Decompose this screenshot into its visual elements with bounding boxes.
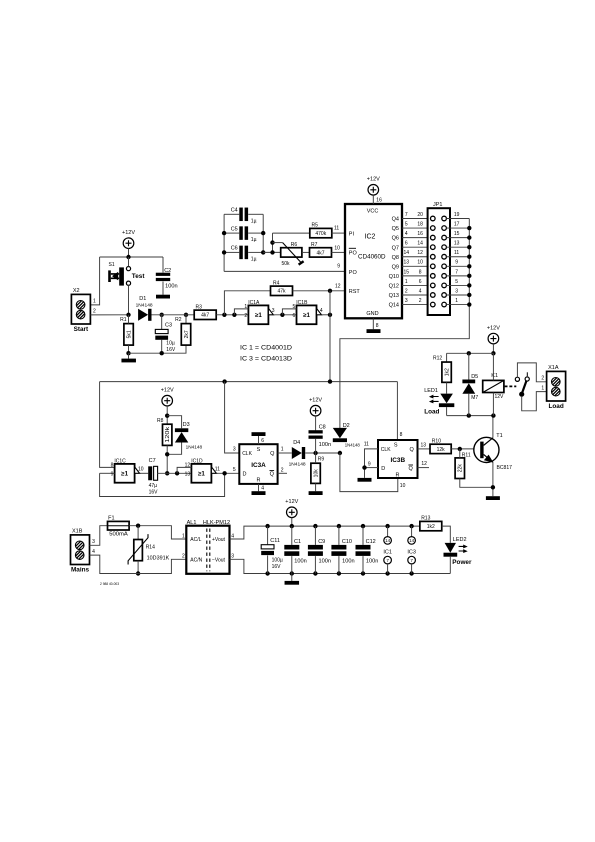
svg-text:VCC: VCC [367, 209, 379, 215]
svg-text:CD4060D: CD4060D [358, 255, 386, 261]
svg-text:+12V: +12V [285, 499, 298, 505]
node bottom rail C11 [265, 571, 269, 575]
svg-text:R: R [396, 472, 400, 478]
pin circle JP1-11 [442, 254, 447, 259]
wire IC1A out to IC1B [273, 314, 296, 316]
ground above IC3A S [252, 432, 266, 436]
svg-text:17: 17 [454, 221, 460, 227]
svg-text:R6: R6 [291, 242, 298, 248]
svg-text:Load: Load [424, 408, 439, 415]
svg-text:GND: GND [366, 311, 378, 317]
wire C11 bottom [267, 555, 269, 573]
node C3 bottom junction [160, 351, 164, 355]
wire +12V to test rail [128, 249, 130, 258]
node test rail junction [126, 255, 130, 259]
wire relay bottom rail [447, 415, 494, 417]
svg-text:+12V: +12V [367, 177, 380, 183]
node JP1 bus junction [467, 274, 471, 278]
wire caps right bus [262, 214, 264, 252]
node D1 anode junction [126, 313, 130, 317]
ground under IC2 [367, 329, 381, 333]
svg-text:Start: Start [74, 326, 89, 333]
svg-text:IC2: IC2 [365, 234, 376, 241]
svg-text:+12V: +12V [122, 230, 135, 236]
wire JP1 pin 7 to bus [446, 275, 469, 277]
wire JP1 pin 1 to bus [446, 304, 469, 306]
capacitor C4 [239, 208, 248, 222]
svg-text:10µ: 10µ [166, 341, 175, 347]
capacitor C8 [309, 430, 323, 439]
capacitor C7 (electrolytic) [148, 466, 157, 480]
svg-text:Power: Power [452, 559, 472, 566]
svg-text:R5: R5 [312, 223, 319, 229]
svg-text:Q13: Q13 [389, 293, 399, 299]
wire C6 right [248, 251, 263, 253]
wire IC2 Q14 to JP1 [402, 304, 430, 306]
mechanical link K1 to contact [505, 385, 517, 387]
wire JP1 pin 11 to bus [446, 256, 469, 258]
svg-text:1: 1 [182, 534, 185, 540]
wire +12V to rail [291, 518, 293, 527]
wire IC3A nQ stub [278, 472, 287, 474]
node R14 bottom [136, 571, 140, 575]
wire JP1 pin 13 to bus [446, 246, 469, 248]
svg-text:3: 3 [455, 288, 458, 294]
ground under R9 [309, 491, 323, 495]
wire C4 right [248, 213, 263, 215]
svg-text:10: 10 [400, 483, 406, 489]
svg-text:16: 16 [376, 197, 382, 203]
svg-text:≥1: ≥1 [303, 312, 310, 319]
transistor T1 (BC817) [474, 433, 512, 471]
svg-text:D: D [381, 466, 385, 472]
wire D5 bottom stub [468, 394, 470, 416]
wire IC2 Q5 to JP1 [402, 227, 430, 229]
svg-text:IC1C: IC1C [114, 458, 126, 464]
svg-text:PO: PO [349, 251, 358, 257]
svg-text:9: 9 [337, 264, 340, 270]
pin circle JP1-6 [431, 283, 436, 288]
resistor R3 [194, 304, 216, 319]
node reset net / IC3A clk branch [222, 379, 226, 383]
switch S1 [108, 262, 145, 286]
resistor R8 [157, 418, 172, 446]
resistor R4 [271, 280, 293, 295]
svg-text:LED2: LED2 [453, 537, 467, 543]
svg-text:6: 6 [405, 241, 408, 247]
wire R2 top [185, 315, 187, 324]
wire R12 top [446, 353, 448, 362]
svg-text:AC/L: AC/L [190, 537, 201, 543]
svg-text:1µ: 1µ [251, 218, 257, 224]
wire D5 top stub [468, 353, 470, 379]
wire R4 branch up [224, 291, 270, 315]
node R4 branch [222, 313, 226, 317]
svg-text:1: 1 [281, 447, 284, 453]
svg-text:X2: X2 [73, 288, 80, 294]
svg-text:2: 2 [419, 298, 422, 304]
svg-text:22k: 22k [458, 464, 464, 473]
svg-text:+Vout: +Vout [212, 537, 226, 543]
svg-text:Q6: Q6 [392, 236, 399, 242]
wire C10 top [338, 526, 340, 545]
diode D5 [462, 380, 475, 394]
+12V supply symbol (power rail) [285, 499, 298, 518]
diode D1 [138, 309, 151, 321]
node IC1B out junction [328, 313, 332, 317]
ground power rail [285, 581, 300, 585]
svg-text:1N4148: 1N4148 [136, 303, 154, 308]
svg-text:1N4148: 1N4148 [186, 444, 203, 449]
node bottom rail IC3 [409, 571, 413, 575]
node R11 branch [458, 447, 462, 451]
pin circle JP1-7 [442, 274, 447, 279]
svg-text:C1: C1 [294, 539, 301, 545]
wire R9 bottom [315, 483, 317, 491]
svg-text:C6: C6 [231, 246, 238, 252]
wire LED2 to rail [449, 557, 451, 574]
node IC3B D/CLK [362, 465, 366, 469]
wire JP1 pin 15 to bus [446, 237, 469, 239]
svg-text:Q5: Q5 [392, 226, 399, 232]
svg-text:M7: M7 [471, 395, 478, 401]
wire IC1D out to IC3A D [216, 472, 239, 474]
resistor R1 [120, 317, 133, 345]
node R8 to gate line [165, 471, 169, 475]
wire IC2 Q12 to JP1 [402, 284, 430, 286]
capacitor C10 [331, 545, 346, 556]
svg-text:11: 11 [215, 467, 220, 473]
pin circle JP1-4 [431, 293, 436, 298]
svg-text:X1A: X1A [548, 365, 559, 371]
resistor R13 [420, 516, 442, 531]
node R8/D3 bottom [165, 452, 169, 456]
svg-text:10: 10 [138, 467, 144, 473]
svg-text:D2: D2 [343, 423, 350, 429]
capacitor C3 (electrolytic) [155, 329, 168, 339]
diode D2 [333, 428, 347, 442]
svg-text:15: 15 [454, 231, 460, 237]
wire VCC pin 16 [372, 195, 374, 204]
svg-text:1: 1 [541, 385, 544, 391]
svg-text:R13: R13 [421, 516, 430, 522]
svg-text:IC1B: IC1B [296, 300, 308, 306]
svg-text:1µ: 1µ [251, 237, 257, 243]
wire R5 to PI [331, 232, 345, 234]
relay K1 coil [483, 373, 504, 400]
resistor R11 [455, 453, 471, 479]
wire GND pin 8 [372, 318, 374, 329]
wire IC3A CLK vertical [225, 382, 240, 453]
svg-text:2 988 40-003: 2 988 40-003 [100, 581, 120, 586]
wire reset to IC1C pin 8 [100, 382, 115, 468]
svg-text:R1: R1 [120, 317, 127, 323]
wire AL1 +Vout to rail [230, 526, 420, 539]
svg-text:15: 15 [404, 269, 410, 275]
svg-text:BC817: BC817 [497, 465, 513, 471]
node bottom rail C1 [290, 571, 294, 575]
ground under IC3B CLK/D [358, 478, 372, 482]
resistor R12 [433, 355, 451, 382]
+12V supply symbol (R8) [161, 387, 174, 406]
svg-text:12k: 12k [437, 447, 446, 453]
wire X1B pin 4 to AL1 [90, 555, 187, 573]
svg-text:Load: Load [548, 403, 563, 410]
node wiper branch [270, 240, 274, 244]
LED LED1 [424, 388, 454, 416]
wire IC2 Q10 to JP1 [402, 275, 430, 277]
node D2 junction [338, 451, 342, 455]
wire C12 top [362, 526, 364, 545]
svg-text:500mA: 500mA [109, 532, 128, 538]
wire AL1 -Vout to rail [230, 559, 451, 573]
pin circle JP1-8 [431, 274, 436, 279]
svg-text:D3: D3 [183, 422, 190, 428]
node JP1 bus junction [467, 226, 471, 230]
node relay rail right [491, 351, 495, 355]
svg-text:C10: C10 [342, 539, 352, 545]
wire IC2 Q13 to JP1 [402, 294, 430, 296]
node IC1D input branch [175, 471, 179, 475]
svg-text:19: 19 [454, 212, 460, 218]
svg-text:3: 3 [92, 539, 95, 545]
svg-text:470k: 470k [315, 231, 326, 237]
svg-text:18: 18 [417, 221, 423, 227]
svg-text:14: 14 [385, 538, 391, 543]
svg-text:100µ: 100µ [272, 558, 283, 564]
power pins IC1 [383, 526, 392, 573]
wire IC1C pin9 [100, 472, 115, 474]
varistor R14 [128, 534, 170, 564]
relay contact K1 [515, 372, 529, 397]
flip-flop IC3B [378, 440, 418, 478]
svg-text:Mains: Mains [71, 566, 90, 573]
svg-text:10: 10 [417, 260, 423, 266]
svg-text:R: R [257, 478, 261, 484]
wire C12 bottom [362, 556, 364, 573]
svg-text:3: 3 [233, 446, 236, 452]
svg-text:50k: 50k [282, 261, 291, 267]
svg-text:4: 4 [320, 308, 323, 314]
+12V supply symbol (relay) [487, 325, 500, 344]
node IC1B input branch [280, 313, 284, 317]
wire reset net horizontal [100, 381, 398, 383]
svg-text:C12: C12 [366, 539, 376, 545]
svg-text:9: 9 [368, 461, 371, 467]
wire C5 row [224, 232, 239, 234]
svg-text:11: 11 [334, 226, 339, 232]
svg-text:10: 10 [334, 246, 340, 252]
node C6 right [261, 250, 265, 254]
or-gate IC1A [244, 300, 274, 324]
svg-text:4: 4 [419, 288, 422, 294]
svg-text:1µ: 1µ [251, 256, 257, 262]
resistor R9 [311, 457, 325, 484]
svg-text:≥1: ≥1 [255, 312, 262, 319]
svg-text:2: 2 [405, 288, 408, 294]
pin circle JP1-14 [431, 245, 436, 250]
node reset net / RST vertical [328, 379, 332, 383]
wire rail to X2 pin 1 [90, 257, 99, 305]
wire IC3A S stub [258, 436, 260, 444]
power pins IC3 [407, 526, 416, 573]
wire rail to C2 [162, 257, 164, 273]
svg-text:R12: R12 [433, 355, 442, 361]
wire D1 to R3 [152, 314, 195, 316]
svg-text:47k: 47k [277, 289, 286, 295]
IC U2 (IC2 CD4060D) [345, 204, 402, 318]
svg-text:C8: C8 [319, 424, 326, 430]
svg-text:PI: PI [349, 232, 355, 238]
wire C10 bottom [338, 556, 340, 573]
wire IC1B out [322, 314, 331, 316]
wire IC2 Q4 to JP1 [402, 218, 430, 220]
svg-text:2: 2 [541, 376, 544, 382]
ground under R1 [121, 359, 136, 363]
svg-text:8: 8 [376, 323, 379, 329]
node JP1 bus junction [467, 255, 471, 259]
svg-text:Q9: Q9 [392, 264, 399, 270]
wire C3 top [161, 315, 163, 330]
node top rail C9 [313, 524, 317, 528]
svg-text:6: 6 [261, 438, 264, 444]
svg-text:AC/N: AC/N [190, 557, 202, 563]
node JP1 bus junction [467, 235, 471, 239]
svg-text:2k7: 2k7 [184, 330, 190, 338]
wire T1 emitter [492, 462, 494, 496]
wire IC3B CLK bracket [365, 449, 379, 478]
svg-text:1N4148: 1N4148 [289, 461, 307, 466]
svg-text:8: 8 [400, 432, 403, 438]
wire X2 pin 2 to D1 node [90, 314, 128, 316]
svg-text:5: 5 [455, 279, 458, 285]
wire C1 top [291, 526, 293, 545]
svg-text:≥1: ≥1 [198, 471, 205, 478]
svg-text:+12V: +12V [487, 325, 500, 331]
wire test rail [100, 256, 163, 258]
svg-text:10D391K: 10D391K [147, 556, 170, 562]
wire D3 bottom branch [167, 443, 181, 455]
svg-text:14: 14 [417, 241, 423, 247]
wire IC2 Q7 to JP1 [402, 246, 430, 248]
connector X1A [541, 365, 565, 410]
svg-text:13: 13 [454, 241, 460, 247]
wire R14 top [137, 526, 139, 540]
pin circle JP1-17 [442, 226, 447, 231]
wire D2 node to IC3B R [340, 453, 398, 492]
svg-text:S: S [394, 443, 398, 449]
svg-text:13: 13 [185, 472, 191, 478]
power module AL1 (HLK-PM12) [182, 520, 234, 574]
fuse F1 [108, 516, 130, 538]
capacitor C1 [284, 545, 299, 556]
wire C9 bottom [314, 556, 316, 573]
node R8/D3 top [165, 414, 169, 418]
svg-text:16V: 16V [166, 347, 176, 353]
pin circle JP1-12 [431, 254, 436, 259]
wire PO row to IC2 pin 9 [224, 270, 345, 272]
svg-text:JP1: JP1 [433, 202, 442, 208]
capacitor C5 [239, 226, 248, 240]
svg-text:−Vout: −Vout [212, 557, 226, 563]
wire R7 to nPO [331, 251, 345, 253]
svg-text:Q4: Q4 [392, 217, 399, 223]
wire C4 row [224, 213, 239, 215]
svg-text:1N4148: 1N4148 [345, 442, 360, 447]
node top rail C1 [290, 524, 294, 528]
wire +12V to R8 [166, 406, 168, 424]
node timing C8/R9 [313, 451, 317, 455]
wire ground stub [128, 353, 130, 358]
node top rail IC1 [385, 524, 389, 528]
svg-text:5k1: 5k1 [126, 330, 132, 338]
node C5 left [222, 231, 226, 235]
wire IC1C out to C7 [140, 472, 149, 474]
svg-text:Q: Q [410, 447, 415, 453]
svg-text:IC3A: IC3A [251, 462, 266, 469]
node RST junction [328, 289, 332, 293]
wire IC2 Q9 to JP1 [402, 265, 430, 267]
wire relay top rail [447, 352, 494, 354]
node IC3A D junction [222, 471, 226, 475]
capacitor C6 [239, 246, 248, 260]
svg-text:8: 8 [111, 463, 114, 469]
svg-text:IC3: IC3 [407, 550, 416, 556]
svg-text:C9: C9 [318, 539, 325, 545]
pin circle JP1-16 [431, 235, 436, 240]
svg-text:12: 12 [335, 283, 341, 289]
wire contact arm to X1A pin 1 [522, 392, 547, 411]
svg-text:R3: R3 [196, 304, 203, 310]
svg-text:C7: C7 [149, 458, 156, 464]
svg-text:PO: PO [349, 270, 358, 276]
svg-text:C5: C5 [231, 226, 238, 232]
wire IC3A R stub [258, 484, 260, 491]
svg-text:S1: S1 [109, 262, 115, 268]
capacitor C2 [156, 273, 170, 281]
svg-text:R2: R2 [175, 317, 182, 323]
wire IC2 Q6 to JP1 [402, 237, 430, 239]
svg-text:3: 3 [272, 308, 275, 314]
potentiometer R6 [281, 242, 304, 267]
svg-text:16V: 16V [272, 564, 282, 570]
wire R4 to RST [293, 290, 346, 292]
svg-text:13: 13 [404, 260, 410, 266]
svg-text:100n: 100n [319, 442, 332, 448]
connector X2 [71, 288, 96, 333]
svg-text:C11: C11 [270, 538, 280, 544]
node C6 left [222, 250, 226, 254]
svg-text:Q10: Q10 [389, 274, 399, 280]
node R1 bottom junction [126, 351, 130, 355]
svg-text:IC 1 = CD4001D: IC 1 = CD4001D [240, 345, 292, 352]
pin circle JP1-2 [431, 302, 436, 307]
wire R14 bottom [137, 561, 139, 574]
svg-text:12: 12 [417, 250, 423, 256]
wire +12V to C8 [315, 416, 317, 430]
svg-text:100n: 100n [165, 284, 178, 290]
wire C11 top [267, 526, 269, 544]
svg-text:+12V: +12V [309, 397, 322, 403]
svg-text:7: 7 [405, 212, 408, 218]
wire D4 to C8 node [305, 452, 340, 454]
wire R8 bottom [166, 445, 168, 473]
svg-text:1: 1 [455, 298, 458, 304]
node bottom rail IC1 [385, 571, 389, 575]
svg-text:100n: 100n [319, 558, 332, 564]
svg-text:3: 3 [405, 298, 408, 304]
svg-text:R10: R10 [432, 439, 441, 445]
